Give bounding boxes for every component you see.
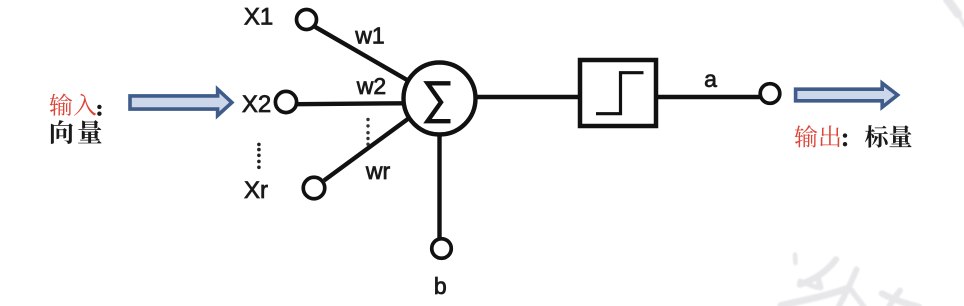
- summation unit circle: [404, 63, 476, 135]
- input node circle X2: [275, 91, 296, 112]
- bias node circle b: [432, 239, 452, 259]
- dotted line between w2 and wr: [366, 118, 369, 146]
- weight wire w2: [297, 101, 404, 106]
- svg-text:Xr: Xr: [244, 177, 268, 204]
- watermark strokes bottom-right: [781, 255, 919, 306]
- weight wire w1: [315, 27, 408, 81]
- sigma glyph: [428, 83, 451, 121]
- input node circle Xr: [303, 177, 325, 199]
- svg-text:w1: w1: [354, 23, 384, 49]
- svg-text:X2: X2: [242, 91, 271, 118]
- svg-text:wr: wr: [365, 158, 391, 184]
- watermark stroke top-right: [947, 0, 964, 27]
- input arrow (blue): [130, 89, 232, 115]
- svg-text:w2: w2: [356, 73, 386, 99]
- label: output text 标量 (bold): [865, 125, 912, 148]
- activation function box: [580, 60, 656, 126]
- svg-text:X1: X1: [244, 4, 273, 31]
- label: input text 向量 (bold): [51, 120, 102, 144]
- svg-text:a: a: [704, 66, 717, 92]
- wire summation to activation box: [475, 95, 580, 99]
- bias wire b: [437, 135, 441, 239]
- step function symbol: [596, 73, 644, 114]
- ellipsis dots between X2 and Xr: [257, 143, 261, 170]
- input node circle X1: [297, 10, 317, 30]
- svg-text:b: b: [434, 273, 447, 299]
- label: output text 输出 (red): [795, 125, 848, 147]
- label: input text 输入 (red): [50, 93, 102, 115]
- output node circle: [760, 84, 780, 104]
- weight wire wr: [324, 119, 409, 181]
- output arrow (blue): [796, 83, 898, 107]
- wire activation box to output node: [658, 95, 760, 99]
